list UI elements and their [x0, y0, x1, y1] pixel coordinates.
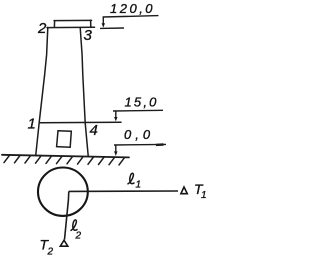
arrowhead 120,0: [102, 23, 105, 27]
wire from center to station T2: [65, 191, 69, 239]
arrowhead 15,0: [114, 117, 117, 121]
svg-text:120,0: 120,0: [110, 1, 155, 16]
ground hatching: [4, 155, 125, 165]
level line through points 1 and 4: [39, 121, 121, 123]
door rectangle on chimney: [57, 131, 72, 147]
station triangle T1: [181, 187, 187, 194]
svg-text:2: 2: [75, 231, 82, 242]
chimney crown right side: [90, 20, 92, 27]
chimney crown left side: [53, 21, 55, 28]
elevation mark 15,0: [113, 94, 163, 121]
arrow stem 15,0: [115, 111, 117, 117]
elevation mark 120,0: [100, 1, 159, 29]
leader line end tick: [156, 143, 164, 146]
label T1: [194, 181, 207, 201]
wire from center to station T1: [69, 190, 178, 192]
leader line under 120,0: [103, 16, 159, 17]
chimney body left side wire: [36, 28, 48, 156]
svg-text:3: 3: [84, 27, 93, 44]
elevation mark 0,0: [114, 127, 166, 156]
label l1 (script ell): [128, 173, 134, 184]
arrow stem 120,0: [102, 17, 104, 24]
circle plan view of chimney: [38, 168, 88, 216]
leader line under 0,0: [114, 143, 166, 146]
arrow stem 0,0: [115, 145, 117, 152]
chimney body right side wire: [80, 28, 88, 156]
svg-text:15,0: 15,0: [125, 94, 159, 109]
station triangle T2: [60, 240, 68, 246]
chimney crown top line: [54, 19, 92, 21]
svg-text:1: 1: [201, 190, 207, 201]
svg-text:2: 2: [47, 247, 54, 258]
chimney crown base line: [47, 26, 95, 28]
datum level segment at top: [100, 27, 124, 29]
arrowhead 0,0: [114, 151, 117, 156]
label l2 (script ell): [71, 220, 77, 231]
ground line: [2, 155, 129, 158]
leader line under 15,0: [113, 109, 163, 112]
svg-text:1: 1: [28, 116, 36, 133]
svg-text:4: 4: [90, 122, 98, 139]
svg-text:1: 1: [136, 180, 142, 191]
svg-text:2: 2: [37, 20, 47, 37]
svg-text:0,0: 0,0: [124, 127, 154, 142]
label T2: [40, 237, 54, 258]
